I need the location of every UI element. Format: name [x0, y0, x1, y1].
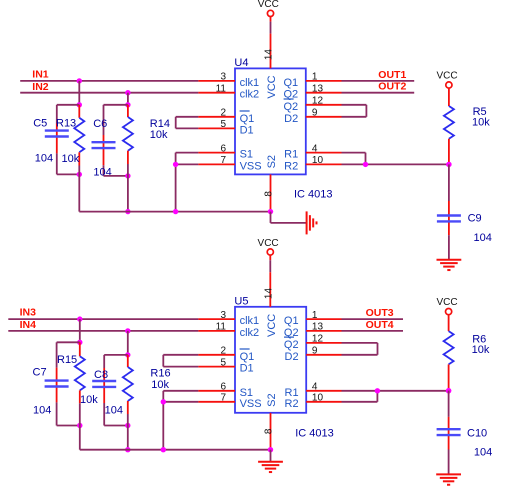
svg-text:7: 7: [220, 155, 226, 166]
wire VSS to ground: [176, 163, 199, 165]
ground below C10: [436, 474, 461, 484]
resistor R6 value label: [472, 344, 490, 356]
capacitor C10 value label: [474, 447, 492, 459]
U5 part label: [295, 428, 334, 440]
node cap A bottom junction: [77, 423, 82, 428]
resistor R16 ref label: [150, 368, 170, 380]
wire ground rail: [80, 449, 271, 451]
resistor R14 ref label: [150, 118, 170, 130]
node S-wire rail junction: [161, 447, 166, 452]
svg-text:8: 8: [263, 191, 274, 197]
capacitor C8: [92, 355, 116, 426]
U4 ref label: [234, 57, 248, 69]
net label OUT3: [366, 307, 394, 319]
wire IN to RC filter A: [79, 319, 81, 342]
resistor R5 ref label: [473, 106, 487, 118]
svg-text:104: 104: [474, 447, 492, 459]
wire IN to RC filter B: [127, 331, 129, 355]
node T-junction A: [77, 102, 82, 107]
resistor R13 value label: [62, 153, 80, 165]
node S1/VSS junction: [161, 399, 166, 404]
svg-text:C10: C10: [467, 428, 487, 440]
node IN3 junction: [77, 316, 82, 321]
svg-text:5: 5: [220, 119, 226, 130]
svg-text:VCC: VCC: [258, 238, 279, 249]
wire cap B bottom: [104, 425, 128, 427]
svg-text:Q1: Q1: [240, 351, 255, 363]
svg-text:3: 3: [220, 310, 226, 321]
svg-text:OUT2: OUT2: [378, 81, 406, 93]
svg-text:104: 104: [33, 404, 51, 416]
svg-text:C8: C8: [94, 369, 108, 381]
wire cap B bottom: [104, 175, 128, 177]
wire IN1 net: [20, 80, 198, 82]
resistor R5 value label: [472, 117, 490, 129]
D flip-flop U4 (IC 4013): [235, 68, 306, 174]
wire cap B top: [104, 104, 128, 106]
power VCC symbol for U4: [258, 0, 279, 16]
resistor R5: [444, 88, 454, 164]
svg-text:1: 1: [312, 310, 318, 321]
capacitor C9: [437, 201, 461, 260]
node resistor B rail junction: [125, 209, 130, 214]
wire R1 joins R2: [342, 153, 366, 165]
node pin 8 ground junction: [268, 447, 273, 452]
svg-text:9: 9: [312, 346, 318, 357]
svg-text:OUT1: OUT1: [378, 69, 406, 81]
capacitor C9 value label: [474, 232, 492, 244]
wire S1 to ground: [163, 391, 198, 450]
U4 pin 14 VCC wire: [270, 17, 272, 69]
svg-text:S2: S2: [266, 155, 278, 168]
capacitor C7: [45, 342, 69, 425]
svg-text:10: 10: [312, 393, 324, 404]
svg-text:VSS: VSS: [240, 160, 262, 172]
svg-text:12: 12: [312, 96, 324, 107]
svg-text:R15: R15: [57, 354, 77, 366]
svg-text:OUT3: OUT3: [366, 307, 394, 319]
net label IN4: [20, 319, 36, 331]
svg-text:Q1: Q1: [240, 113, 255, 125]
resistor R16: [123, 355, 133, 450]
svg-text:IN4: IN4: [20, 319, 36, 331]
wire OUT3 net: [342, 318, 404, 320]
node IN1 junction: [77, 78, 82, 83]
wire Q2bar to D2 feedback: [342, 343, 378, 355]
U5 VCC pin label: [266, 314, 278, 337]
svg-text:clk1: clk1: [240, 315, 260, 327]
U4 S2 pin label: [266, 155, 278, 168]
wire IN to RC filter B: [127, 93, 129, 105]
net label OUT1: [378, 69, 406, 81]
svg-text:7: 7: [220, 393, 226, 404]
D flip-flop U5 (IC 4013): [235, 307, 306, 413]
svg-text:2: 2: [220, 108, 226, 119]
resistor R14 value label: [150, 129, 168, 141]
svg-text:VCC: VCC: [258, 0, 279, 10]
wire cap A top: [57, 341, 80, 343]
net label OUT2: [378, 81, 406, 93]
ground (digital) for U4: [307, 211, 317, 234]
U4 pin 8 wire: [270, 174, 272, 211]
node pin 8 ground junction: [268, 209, 273, 214]
wire cap B top: [104, 354, 128, 356]
svg-text:IN3: IN3: [20, 307, 36, 319]
capacitor C10 ref label: [467, 428, 487, 440]
svg-text:U5: U5: [234, 296, 248, 308]
U4 right pins 1 13 12 9 4 10: [306, 72, 342, 167]
svg-text:104: 104: [474, 232, 492, 244]
resistor R6 ref label: [472, 334, 486, 346]
capacitor C10: [437, 417, 461, 475]
svg-text:Q2: Q2: [284, 339, 299, 351]
net label OUT4: [366, 319, 394, 331]
wire Q1bar to D1 feedback: [163, 355, 198, 367]
svg-text:104: 104: [105, 405, 123, 417]
svg-text:104: 104: [35, 153, 53, 165]
wire R1 to pull-up: [342, 390, 449, 392]
node cap B bottom junction: [125, 173, 130, 178]
svg-text:Q1: Q1: [284, 77, 299, 89]
resistor R15: [75, 342, 85, 449]
svg-text:S1: S1: [240, 149, 253, 161]
wire R2 to pull-up: [342, 163, 449, 165]
svg-text:IC 4013: IC 4013: [295, 428, 334, 440]
capacitor C8 ref label: [94, 369, 108, 381]
capacitor C5: [45, 105, 69, 175]
svg-text:D1: D1: [240, 124, 254, 136]
svg-text:C7: C7: [33, 367, 47, 379]
wire IN4 net: [8, 330, 198, 332]
svg-text:10k: 10k: [472, 117, 490, 129]
node R1/R2 junction: [375, 388, 380, 393]
node pull-up junction: [446, 388, 451, 393]
svg-text:13: 13: [312, 83, 324, 94]
capacitor C5 value label: [35, 153, 53, 165]
resistor R15 ref label: [57, 354, 77, 366]
svg-text:C6: C6: [93, 118, 107, 130]
svg-text:R2: R2: [284, 160, 298, 172]
ground (digital) for U5: [258, 462, 283, 472]
node cap B bottom junction: [125, 423, 130, 428]
svg-text:D2: D2: [284, 113, 298, 125]
U5 pin 8 wire: [270, 413, 272, 450]
U5 pin 14 number: [263, 288, 274, 300]
svg-text:clk1: clk1: [240, 77, 260, 89]
capacitor C6 value label: [93, 167, 111, 179]
svg-text:10k: 10k: [62, 153, 80, 165]
svg-text:5: 5: [220, 357, 226, 368]
svg-text:C9: C9: [468, 212, 482, 224]
node S1/VSS junction: [173, 162, 178, 167]
svg-text:IN2: IN2: [32, 81, 49, 93]
svg-text:14: 14: [263, 288, 274, 300]
svg-text:10k: 10k: [151, 379, 169, 391]
wire OUT1 net: [342, 80, 415, 82]
svg-text:VSS: VSS: [240, 398, 262, 410]
svg-text:VCC: VCC: [436, 70, 457, 81]
svg-text:clk2: clk2: [240, 327, 260, 339]
wire cap A top: [57, 104, 80, 106]
svg-text:12: 12: [312, 334, 324, 345]
svg-text:OUT4: OUT4: [366, 319, 394, 331]
wire pin 8 to ground: [271, 212, 307, 223]
svg-text:2: 2: [220, 346, 226, 357]
net label IN3: [20, 307, 36, 319]
svg-text:IN1: IN1: [32, 68, 49, 80]
capacitor C8 value label: [105, 405, 123, 417]
capacitor C7 ref label: [33, 367, 47, 379]
capacitor C7 value label: [33, 404, 51, 416]
svg-text:10k: 10k: [80, 394, 98, 406]
svg-text:4: 4: [312, 143, 318, 154]
svg-text:IC 4013: IC 4013: [294, 189, 333, 201]
wire Q1bar to D1 feedback: [176, 117, 199, 129]
svg-text:11: 11: [216, 322, 227, 333]
U4 pin name labels: [240, 77, 299, 172]
wire VSS to ground: [163, 401, 198, 403]
node T-junction A: [77, 340, 82, 345]
svg-text:6: 6: [220, 382, 226, 393]
U5 left pins 3 11 2 5 6 7: [198, 310, 235, 404]
node S-wire rail junction: [173, 209, 178, 214]
U5 pin name labels: [240, 315, 299, 410]
wire R5 to C9: [448, 164, 450, 201]
node IN4 junction: [125, 328, 130, 333]
wire Q2bar to D2 feedback: [342, 105, 367, 117]
wire OUT2 net: [342, 92, 415, 94]
wire IN to RC filter A: [78, 81, 80, 105]
capacitor C9 ref label: [468, 212, 482, 224]
U5 pin 14 VCC wire: [269, 255, 271, 307]
svg-text:4: 4: [312, 382, 318, 393]
svg-text:11: 11: [216, 83, 227, 94]
svg-text:C5: C5: [33, 118, 47, 130]
svg-text:3: 3: [220, 72, 226, 83]
svg-text:13: 13: [312, 322, 324, 333]
U5 right pins 1 13 12 9 4 10: [306, 310, 341, 404]
power VCC symbol for U5: [258, 238, 279, 255]
wire R6 to C10: [448, 391, 450, 417]
wire ground rail: [79, 211, 270, 213]
net label IN1: [32, 68, 49, 80]
capacitor C6 ref label: [93, 118, 107, 130]
resistor R16 value label: [151, 379, 169, 391]
svg-text:VCC: VCC: [266, 75, 278, 98]
svg-text:D1: D1: [240, 363, 254, 375]
svg-text:10k: 10k: [472, 344, 490, 356]
svg-text:10k: 10k: [150, 129, 168, 141]
svg-text:6: 6: [220, 143, 226, 154]
node R1/R2 junction: [363, 162, 368, 167]
U4 left pins 3 11 2 5 6 7: [198, 72, 235, 167]
svg-text:Q1: Q1: [284, 315, 299, 327]
svg-text:1: 1: [312, 72, 318, 83]
U4 pin 14 number: [263, 49, 274, 61]
svg-text:clk2: clk2: [240, 89, 260, 101]
node IN2 junction: [125, 90, 130, 95]
svg-text:R1: R1: [284, 149, 298, 161]
wire IN2 net: [20, 92, 198, 94]
node cap A bottom junction: [77, 172, 82, 177]
node T-junction B: [125, 102, 130, 107]
svg-text:9: 9: [312, 108, 318, 119]
wire R2 joins R1: [342, 391, 378, 402]
resistor R6: [444, 315, 454, 391]
capacitor C5 ref label: [33, 118, 47, 130]
svg-text:8: 8: [263, 428, 274, 434]
svg-text:S2: S2: [266, 393, 278, 406]
svg-text:Q2: Q2: [284, 101, 299, 113]
node T-junction B: [125, 352, 130, 357]
svg-text:10: 10: [312, 155, 324, 166]
U4 pin 8 number: [263, 191, 274, 197]
resistor R14: [123, 105, 133, 212]
wire cap A bottom: [57, 425, 80, 427]
wire IN3 net: [8, 318, 198, 320]
power VCC symbol for R6: [436, 297, 457, 315]
node R6 junction: [446, 388, 451, 393]
ground below C9: [437, 260, 462, 270]
node pull-up junction: [446, 162, 451, 167]
wire S1 to ground: [176, 153, 199, 212]
svg-text:VCC: VCC: [436, 297, 457, 308]
svg-text:VCC: VCC: [266, 314, 278, 337]
svg-text:14: 14: [263, 49, 274, 61]
wire cap A bottom: [57, 173, 80, 175]
svg-text:U4: U4: [234, 57, 248, 69]
power VCC symbol for R5: [436, 70, 457, 88]
wire OUT4 net: [342, 330, 404, 332]
resistor R15 value label: [80, 394, 98, 406]
svg-text:R2: R2: [285, 398, 299, 410]
U4 part label: [294, 189, 333, 201]
resistor R13: [74, 105, 84, 212]
node resistor B rail junction: [125, 447, 130, 452]
net label IN2: [32, 81, 49, 93]
wire pin 8 to ground: [270, 450, 272, 462]
U5 S2 pin label: [266, 393, 278, 406]
svg-text:D2: D2: [285, 351, 299, 363]
U5 ref label: [234, 296, 248, 308]
U4 VCC pin label: [266, 75, 278, 98]
node R5 junction: [446, 162, 451, 167]
U5 pin 8 number: [263, 428, 274, 434]
svg-text:R16: R16: [150, 368, 170, 380]
capacitor C6: [92, 105, 116, 176]
resistor R13 ref label: [56, 118, 76, 130]
svg-text:R13: R13: [56, 118, 76, 130]
